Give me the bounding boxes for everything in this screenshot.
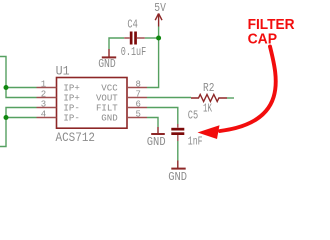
pin 7 stub xyxy=(127,97,147,99)
pin 1 stub xyxy=(37,87,57,89)
ground symbol GND (under C4) xyxy=(102,49,116,57)
svg-text:8: 8 xyxy=(136,80,141,90)
junction dot IP+ xyxy=(4,85,9,90)
junction dot IP- xyxy=(4,115,9,120)
svg-text:U1: U1 xyxy=(56,64,70,79)
svg-text:2: 2 xyxy=(41,90,46,100)
svg-text:1K: 1K xyxy=(203,103,212,116)
svg-text:GND: GND xyxy=(101,113,118,124)
svg-text:1: 1 xyxy=(41,80,46,90)
callout arrow curve xyxy=(220,47,276,132)
svg-text:7: 7 xyxy=(136,90,141,100)
pin 3 stub xyxy=(37,107,57,109)
resistor R2 zigzag xyxy=(191,95,227,102)
junction dot 5V net xyxy=(156,36,161,41)
svg-text:IP-: IP- xyxy=(63,113,79,124)
wire C5 bottom to ground xyxy=(177,141,179,161)
svg-text:0.1uF: 0.1uF xyxy=(121,46,146,59)
wire net IP+ (left edge to pins 1,2) xyxy=(0,57,37,98)
wire C4 left lead to ground xyxy=(109,38,124,49)
svg-text:1nF: 1nF xyxy=(188,135,203,148)
capacitor C4 leads xyxy=(124,37,145,39)
svg-text:5V: 5V xyxy=(154,2,166,15)
supply symbol 5V arrow xyxy=(155,14,162,27)
callout arrowhead xyxy=(198,125,220,139)
svg-text:3: 3 xyxy=(41,100,46,110)
pin 5 stub xyxy=(127,117,147,119)
svg-text:GND: GND xyxy=(98,58,116,71)
wire net IP- (left edge to pins 3,4) xyxy=(0,108,37,147)
svg-text:GND: GND xyxy=(147,136,166,149)
wire net 5V (pin 8 up to supply and C4) xyxy=(145,27,159,88)
capacitor C5 plates xyxy=(171,128,184,135)
callout text FILTER CAP xyxy=(248,16,295,47)
svg-text:GND: GND xyxy=(168,171,187,180)
wire right of R2 xyxy=(227,97,234,99)
svg-text:R2: R2 xyxy=(203,82,214,95)
svg-text:4: 4 xyxy=(41,110,46,120)
svg-text:ACS712: ACS712 xyxy=(56,130,96,145)
svg-text:6: 6 xyxy=(136,100,141,110)
op-amp U1 box (ACS712 IC body) xyxy=(57,78,128,129)
pin 8 stub xyxy=(127,87,147,89)
svg-text:C4: C4 xyxy=(127,19,137,32)
capacitor C5 leads xyxy=(177,124,179,141)
pin 6 stub xyxy=(127,107,147,109)
pin 4 stub xyxy=(37,117,57,119)
ground symbol GND (pin 5) xyxy=(151,127,165,134)
svg-text:5: 5 xyxy=(136,110,141,120)
ground symbol GND (under C5) xyxy=(171,161,185,169)
wire pin 5 GND branch xyxy=(147,118,158,128)
pin 2 stub xyxy=(37,97,57,99)
wire net VOUT (pin 7 to R2) xyxy=(147,97,191,99)
capacitor C4 plates xyxy=(130,32,137,45)
wire net FILT (pin 6 to C5) xyxy=(147,108,178,125)
svg-text:CAP: CAP xyxy=(248,31,278,48)
svg-text:C5: C5 xyxy=(188,110,198,123)
